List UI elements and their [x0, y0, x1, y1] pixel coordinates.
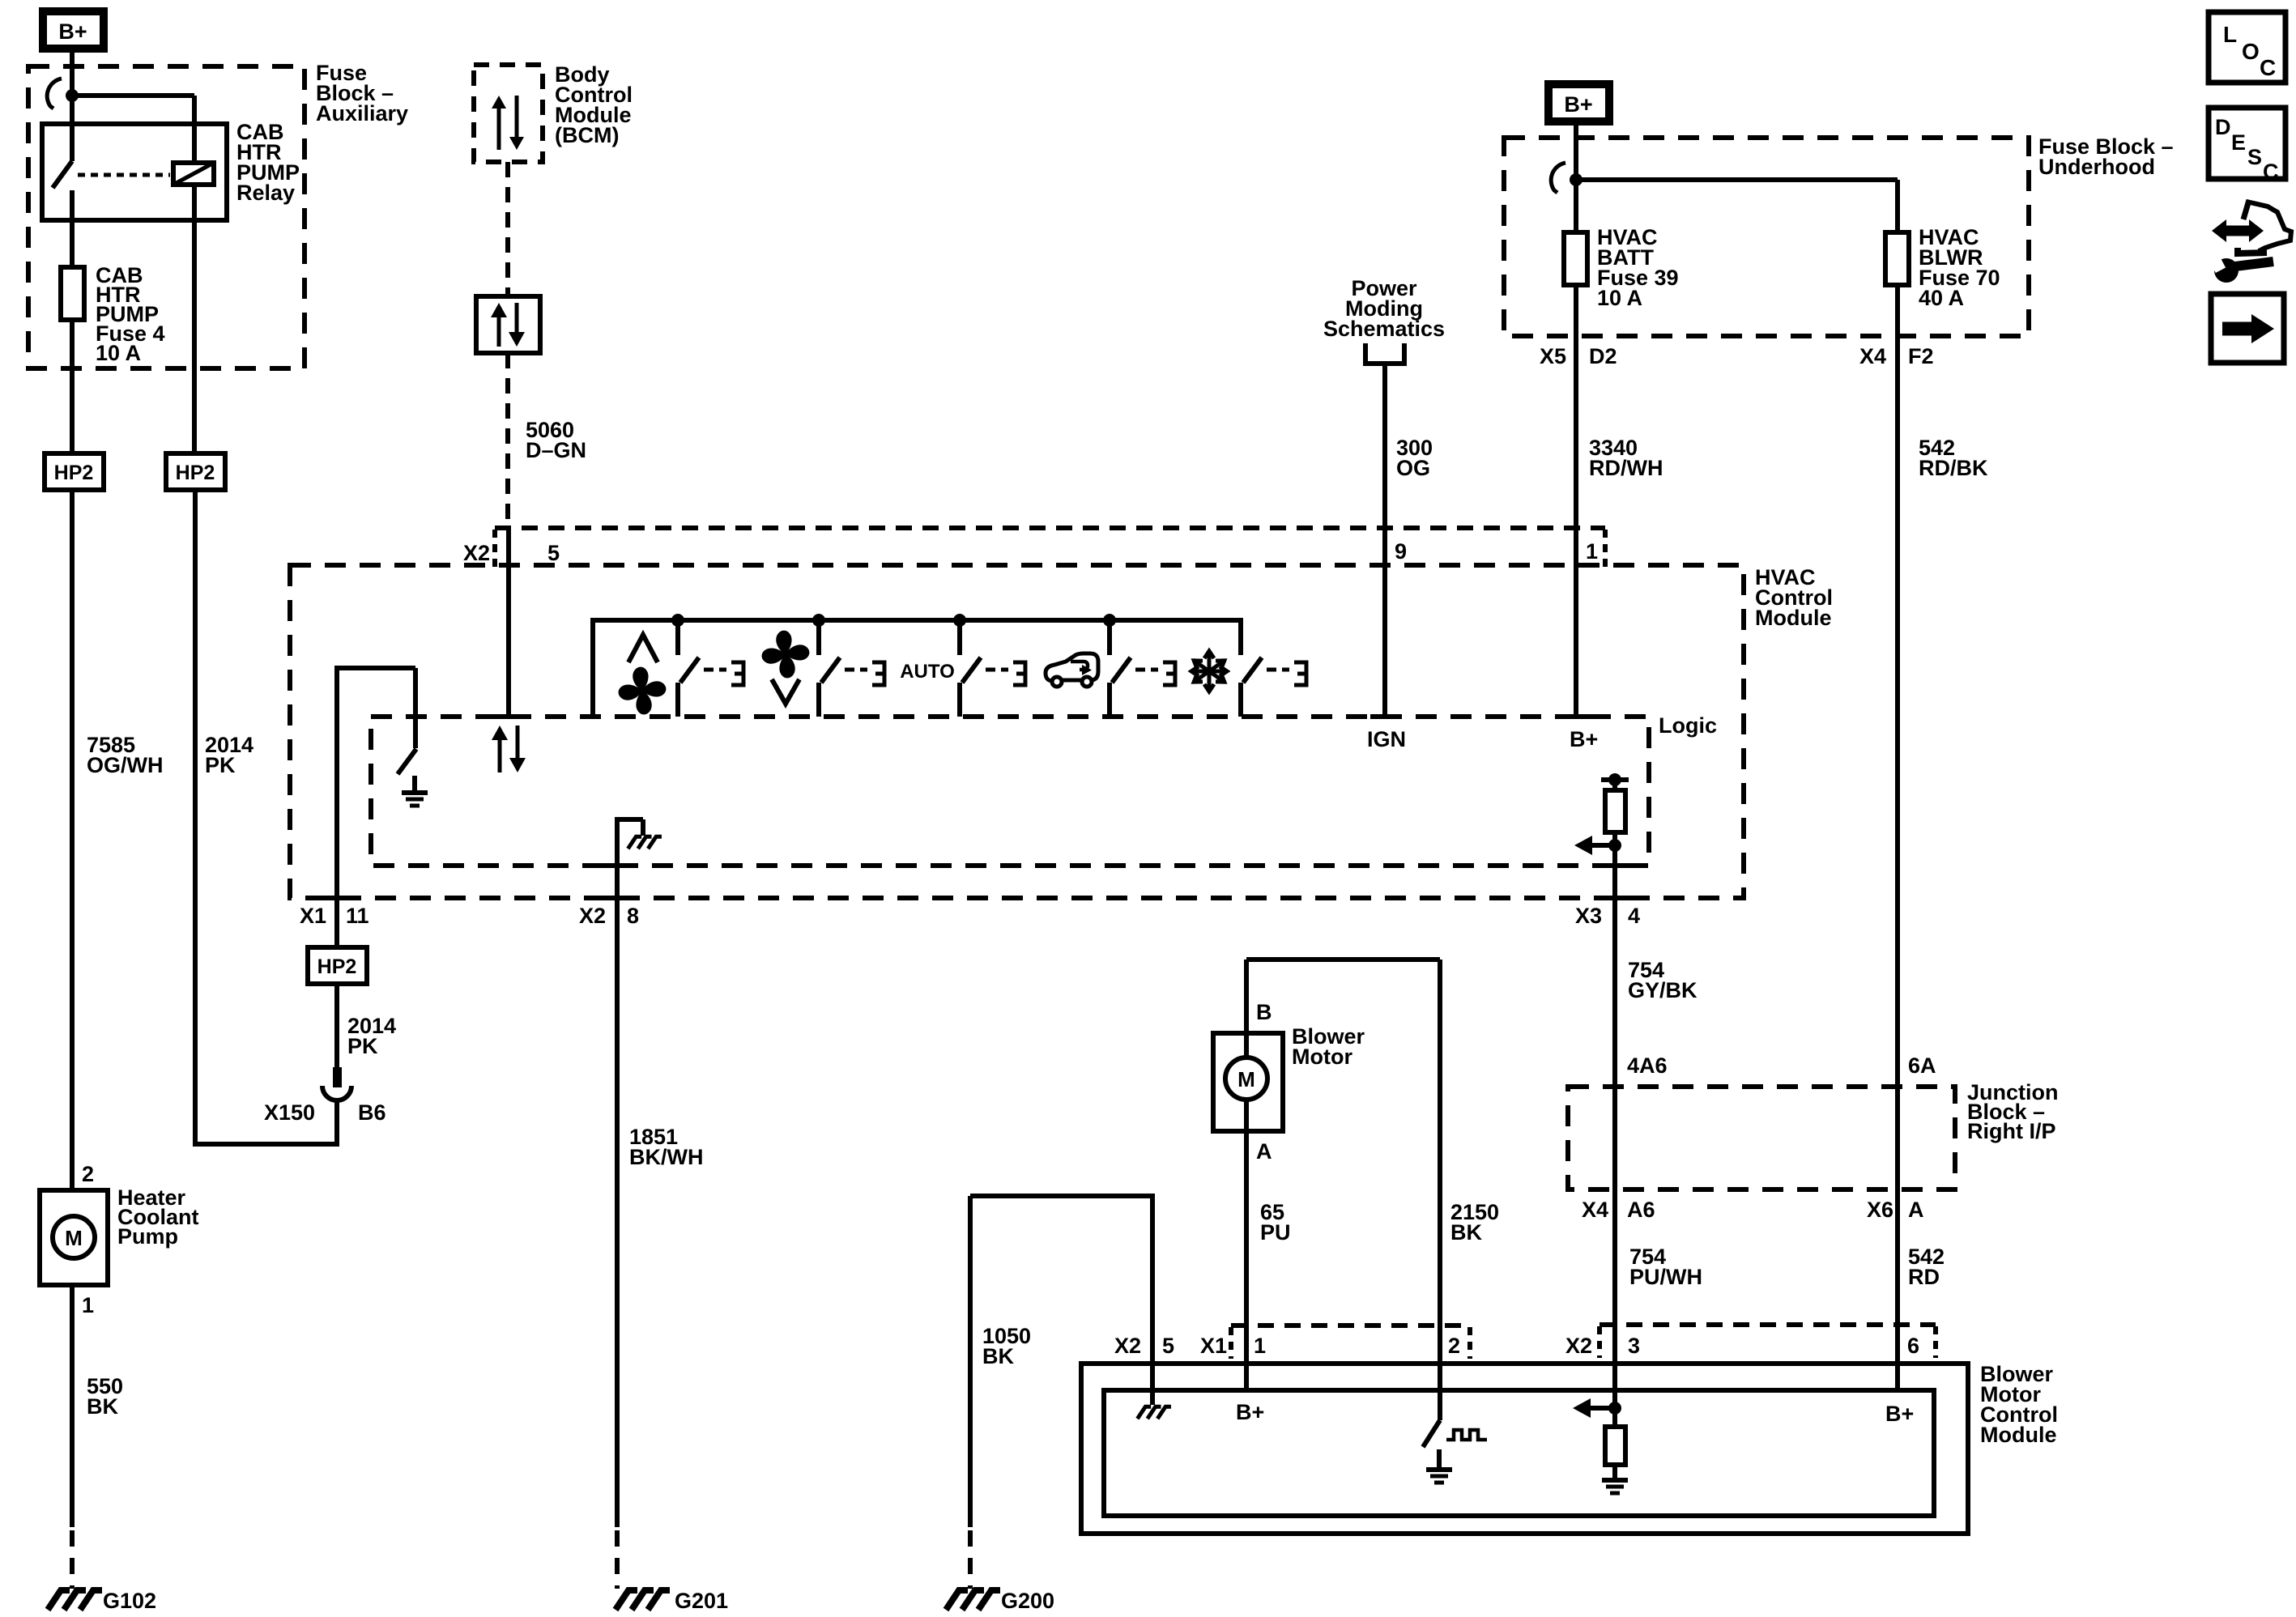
label pin X5 D2 [1540, 344, 1617, 368]
svg-text:C: C [2260, 55, 2276, 80]
svg-text:E: E [2231, 130, 2246, 155]
label B+ pin 1 [1236, 1400, 1264, 1424]
svg-text:A6: A6 [1627, 1198, 1655, 1222]
label pin 2 BMCM [1448, 1334, 1460, 1358]
wire 1851 BK/WH [615, 898, 620, 1589]
wire 550 BK [70, 1285, 75, 1589]
node bus tap 4 [1103, 614, 1116, 627]
label wire 542 RD [1908, 1245, 1945, 1289]
label wire 1050 BK [982, 1324, 1031, 1368]
svg-text:M: M [65, 1226, 83, 1250]
wire relay coil to HP2 [192, 185, 197, 453]
dashed wire BCM to arrows box [505, 162, 510, 296]
label pin X1 11 [300, 904, 369, 928]
svg-text:40 A: 40 A [1919, 286, 1964, 310]
svg-text:9: 9 [1395, 539, 1407, 564]
node bus tap 1 [671, 614, 684, 627]
label terminal A [1256, 1139, 1272, 1164]
svg-text:X6: X6 [1867, 1198, 1893, 1222]
connector strip X1 of BMCM (dotted) [1231, 1326, 1470, 1359]
svg-text:S: S [2247, 145, 2262, 169]
label terminal B [1256, 1000, 1272, 1024]
wire crossing marks HVAC CM bottom [323, 866, 1629, 898]
switch AUTO [960, 620, 1025, 717]
svg-text:Relay: Relay [236, 181, 295, 205]
label heater coolant pump [117, 1185, 199, 1249]
label wire 550 BK [87, 1374, 123, 1419]
label BCM [555, 62, 633, 147]
label B+ pin 6 [1885, 1402, 1914, 1426]
wire 300 OG [1382, 364, 1387, 717]
svg-text:5: 5 [547, 541, 560, 565]
label AUTO button [900, 661, 955, 683]
wire pin5 to chassis ground [1137, 1194, 1171, 1419]
svg-text:Pump: Pump [117, 1224, 178, 1249]
fuse CAB HTR PUMP Fuse 4 [61, 267, 84, 453]
arrow signal output [1574, 836, 1615, 855]
svg-text:M: M [1237, 1067, 1255, 1091]
label wire 3340 RD/WH [1589, 436, 1663, 480]
svg-text:L: L [2223, 22, 2237, 47]
label pin 4A6 [1627, 1053, 1668, 1078]
icon recirculation car [1046, 653, 1098, 687]
node bus tap 2 [812, 614, 825, 627]
svg-text:3: 3 [1628, 1334, 1640, 1358]
svg-text:D2: D2 [1589, 344, 1617, 368]
relay coil box [173, 163, 214, 185]
serial data link box [476, 296, 540, 353]
svg-text:GY/BK: GY/BK [1628, 978, 1698, 1002]
label wire 754 GY/BK [1628, 958, 1698, 1002]
node pin3 input [1608, 1402, 1621, 1415]
svg-text:O: O [2242, 39, 2260, 64]
svg-text:8: 8 [627, 904, 639, 928]
svg-text:X1: X1 [1200, 1334, 1227, 1358]
wire blower loop top [1246, 960, 1440, 962]
svg-text:PU: PU [1260, 1220, 1291, 1245]
svg-text:Right I/P: Right I/P [1967, 1119, 2056, 1143]
wire 2014 PK lower [334, 984, 339, 1067]
label X150 [264, 1100, 315, 1125]
label fuse block underhood [2038, 134, 2174, 179]
label wire 65 PU [1260, 1200, 1291, 1245]
label pin 1 heater coolant pump [82, 1293, 94, 1317]
svg-text:10 A: 10 A [1597, 286, 1642, 310]
module blower motor control module box [1081, 1364, 1968, 1534]
svg-text:Motor: Motor [1292, 1045, 1352, 1069]
logic dashed box [371, 717, 1649, 866]
label B6 [358, 1100, 386, 1125]
arrow pin3 signal [1573, 1398, 1615, 1418]
label fuse block auxiliary [316, 61, 408, 126]
connector strip X2 of BMCM (dotted) [1600, 1325, 1936, 1358]
relay switch contact [53, 96, 72, 269]
svg-text:G201: G201 [675, 1589, 728, 1613]
wire 2150 BK [1438, 960, 1442, 1420]
svg-text:X3: X3 [1575, 904, 1602, 928]
module HVAC control module dashed box [290, 565, 1744, 898]
fuse HVAC BLWR Fuse 70 [1885, 232, 1909, 1390]
node junction at B+ feed [66, 89, 79, 102]
label pin X2 5 [463, 541, 560, 565]
svg-text:6A: 6A [1908, 1053, 1936, 1078]
switch blower up [678, 620, 743, 717]
ground G201 [616, 1590, 670, 1610]
label fuse 4 [96, 263, 165, 365]
icon A/C snowflake [1191, 650, 1228, 692]
connector X150 pin B6 [322, 1067, 351, 1147]
dashed wire 5060 D-GN [508, 353, 509, 717]
connector HP2 (left) [45, 453, 104, 490]
svg-text:Schematics: Schematics [1323, 317, 1445, 341]
motor heater coolant pump [40, 1190, 108, 1285]
label pin 9 [1395, 539, 1407, 564]
switch PWM blower control [1423, 1420, 1487, 1483]
svg-text:X150: X150 [264, 1100, 315, 1125]
wire 7585 OG/WH [70, 490, 75, 1190]
svg-text:HP2: HP2 [176, 462, 215, 484]
label wire 2014 PK (lower) [347, 1014, 396, 1058]
svg-text:2: 2 [82, 1162, 94, 1186]
label relay [236, 120, 300, 205]
svg-text:HP2: HP2 [54, 462, 94, 484]
fusible element hook symbol (underhood) [1551, 163, 1565, 193]
svg-text:1: 1 [82, 1293, 94, 1317]
svg-text:PK: PK [205, 753, 236, 777]
label wire 7585 OG/WH [87, 733, 164, 777]
label wire 2150 BK [1450, 1200, 1499, 1245]
svg-text:5: 5 [1162, 1334, 1174, 1358]
label pin X2 8 [579, 904, 639, 928]
svg-text:X4: X4 [1582, 1198, 1608, 1222]
ground G200 [946, 1590, 1000, 1610]
node junction underhood feed [1570, 173, 1582, 186]
label wire 5060 D-GN [526, 418, 586, 462]
resistor blower feedback (logic) [1601, 773, 1629, 898]
svg-text:IGN: IGN [1367, 727, 1406, 751]
off-page connector bracket [1365, 343, 1404, 364]
node bus tap 3 [953, 614, 966, 627]
switch A/C [1241, 618, 1306, 717]
svg-text:B+: B+ [58, 19, 87, 44]
svg-text:PU/WH: PU/WH [1629, 1265, 1702, 1289]
ground chassis X2-8 inside module [615, 819, 662, 898]
junction block right I/P dashed box [1568, 1087, 1955, 1189]
svg-text:OG: OG [1396, 456, 1430, 480]
svg-text:D: D [2215, 115, 2231, 139]
connector HP2 (right) [166, 453, 225, 490]
label pin 1 [1586, 539, 1598, 564]
svg-text:G102: G102 [103, 1589, 156, 1613]
wire 754 GY/BK [1612, 898, 1617, 1408]
wire end 5060 at logic [492, 717, 526, 772]
relay actuation dashed link [78, 173, 170, 177]
svg-text:AUTO: AUTO [900, 661, 955, 683]
label pin 6A [1908, 1053, 1936, 1078]
label wire 1851 BK/WH [629, 1125, 703, 1169]
label G201 [675, 1589, 728, 1613]
module body control module (BCM) dashed box [474, 65, 543, 162]
wire end 3340 B+ at logic [1562, 714, 1590, 719]
svg-text:B: B [1256, 1000, 1272, 1024]
fuse block underhood dashed box [1504, 138, 2029, 336]
label blower motor control module [1980, 1362, 2058, 1447]
label pin X4 F2 [1859, 344, 1934, 368]
label wire 754 PU/WH [1629, 1245, 1702, 1289]
wire 2014 PK (relay to X150) [193, 490, 337, 1147]
wire B+ to fuse block auxiliary [70, 53, 75, 96]
label pin X3 4 [1575, 904, 1640, 928]
label B+ logic [1570, 727, 1598, 751]
svg-text:A: A [1256, 1139, 1272, 1164]
power symbol B+ (top right) [1548, 84, 1609, 121]
BCM serial data arrows [492, 96, 524, 150]
label logic [1659, 713, 1717, 738]
svg-text:B6: B6 [358, 1100, 386, 1125]
label pin X2 5 BMCM [1114, 1334, 1174, 1358]
wire junction to relay coil [72, 96, 194, 164]
svg-text:F2: F2 [1908, 344, 1934, 368]
svg-text:11: 11 [346, 904, 369, 928]
switch X1-11 to ground inside module [334, 668, 428, 898]
label power moding schematics [1323, 276, 1445, 341]
svg-text:X2: X2 [579, 904, 606, 928]
label wire 300 OG [1396, 436, 1433, 480]
svg-text:(BCM): (BCM) [555, 123, 619, 147]
node resistor output [1608, 839, 1621, 852]
label HVAC control module [1755, 565, 1833, 630]
svg-text:X2: X2 [1565, 1334, 1592, 1358]
wire junction to fuse 70 [1576, 180, 1898, 235]
svg-text:6: 6 [1907, 1334, 1919, 1358]
svg-text:BK/WH: BK/WH [629, 1145, 703, 1169]
icon fan down chevron [757, 626, 814, 704]
wire switch bus [590, 618, 1241, 717]
icon LOC box [2209, 12, 2285, 83]
label pin X2 3 BMCM [1565, 1334, 1640, 1358]
label IGN [1367, 727, 1406, 751]
power symbol B+ (battery feed, top left) [43, 11, 104, 49]
svg-text:1: 1 [1254, 1334, 1266, 1358]
svg-text:X2: X2 [1114, 1334, 1141, 1358]
svg-text:G200: G200 [1001, 1589, 1054, 1613]
svg-text:BK: BK [982, 1344, 1014, 1368]
wire 1050 BK [970, 1194, 1152, 1589]
svg-text:Underhood: Underhood [2038, 155, 2155, 179]
svg-text:10 A: 10 A [96, 341, 141, 365]
fusible element hook symbol [47, 79, 62, 109]
switch blower down [819, 620, 884, 717]
relay CAB HTR PUMP Relay box [42, 124, 227, 220]
svg-text:RD/WH: RD/WH [1589, 456, 1663, 480]
svg-text:1: 1 [1586, 539, 1598, 564]
svg-text:Module: Module [1980, 1423, 2057, 1447]
svg-text:B+: B+ [1236, 1400, 1264, 1424]
svg-text:X2: X2 [463, 541, 490, 565]
icon repair glove with arrows and wrench [2211, 200, 2291, 283]
svg-text:C: C [2263, 160, 2279, 184]
fuse HVAC BATT Fuse 39 [1564, 180, 1587, 717]
svg-text:RD/BK: RD/BK [1919, 456, 1988, 480]
svg-text:X5: X5 [1540, 344, 1566, 368]
label pin 6 BMCM [1907, 1334, 1919, 1358]
label junction block [1967, 1080, 2059, 1143]
svg-text:BK: BK [1450, 1220, 1482, 1245]
svg-text:D–GN: D–GN [526, 438, 586, 462]
svg-text:Logic: Logic [1659, 713, 1717, 738]
svg-text:X1: X1 [300, 904, 326, 928]
svg-text:RD: RD [1908, 1265, 1940, 1289]
motor blower motor [1213, 1033, 1283, 1131]
label G102 [103, 1589, 156, 1613]
svg-text:Module: Module [1755, 606, 1832, 630]
connector strip X2 of HVAC control module (dotted) [495, 528, 1605, 567]
svg-text:X4: X4 [1859, 344, 1886, 368]
label pin 2 heater coolant pump [82, 1162, 94, 1186]
svg-text:2: 2 [1448, 1334, 1460, 1358]
svg-text:B+: B+ [1570, 727, 1598, 751]
svg-text:Auxiliary: Auxiliary [316, 101, 408, 126]
ground G102 [48, 1590, 102, 1610]
svg-text:PK: PK [347, 1034, 378, 1058]
label pin X1 1 BMCM [1200, 1334, 1266, 1358]
icon forward arrow box [2211, 294, 2284, 363]
switch recirculation [1110, 620, 1175, 717]
label wire 542 RD/BK [1919, 436, 1988, 480]
svg-text:HP2: HP2 [317, 955, 357, 978]
svg-text:BK: BK [87, 1394, 118, 1419]
resistor BMCM feedback [1602, 1408, 1628, 1493]
label pin X4 A6 [1582, 1198, 1655, 1222]
label wire 2014 PK (upper) [205, 733, 253, 777]
svg-text:OG/WH: OG/WH [87, 753, 164, 777]
label G200 [1001, 1589, 1054, 1613]
icon DESC box [2209, 108, 2285, 184]
connector HP2 (inline lower) [308, 898, 367, 984]
svg-text:4A6: 4A6 [1627, 1053, 1668, 1078]
svg-text:B+: B+ [1564, 92, 1592, 117]
wire 65 PU [1244, 960, 1249, 1390]
wire end 300 IGN at logic [1370, 714, 1398, 719]
fuse block auxiliary dashed box [28, 66, 305, 368]
svg-text:B+: B+ [1885, 1402, 1914, 1426]
wire B+ into underhood block [1574, 121, 1578, 180]
svg-text:4: 4 [1628, 904, 1640, 928]
icon fan up chevron [614, 635, 671, 719]
label blower motor [1292, 1024, 1365, 1069]
svg-text:A: A [1908, 1198, 1924, 1222]
label fuse 39 [1597, 225, 1679, 310]
label pin X6 A [1867, 1198, 1924, 1222]
label fuse 70 [1919, 225, 2000, 310]
